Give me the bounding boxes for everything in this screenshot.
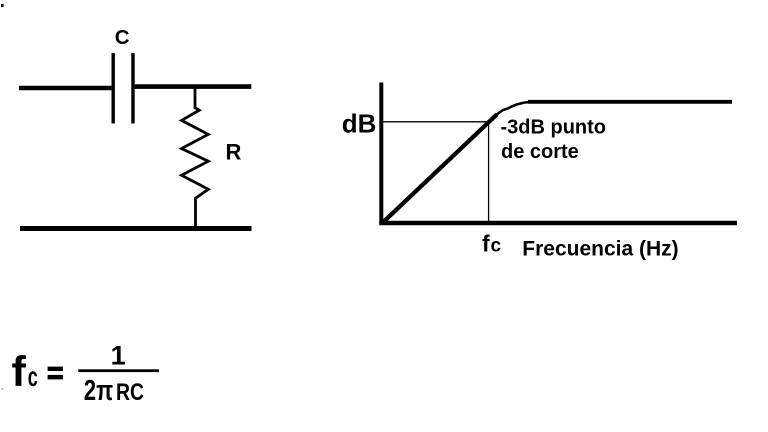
svg-text:Frecuencia (Hz): Frecuencia (Hz) — [522, 237, 678, 260]
svg-text:f: f — [12, 348, 27, 396]
svg-text:RC: RC — [116, 379, 144, 406]
svg-text:2π: 2π — [84, 375, 113, 407]
svg-text:de corte: de corte — [501, 141, 579, 163]
svg-text:c: c — [28, 361, 38, 392]
svg-text:R: R — [226, 140, 242, 165]
svg-text:dB: dB — [342, 108, 377, 138]
svg-text:C: C — [115, 26, 130, 49]
svg-text:1: 1 — [111, 341, 126, 371]
svg-text:-3dB punto: -3dB punto — [501, 117, 607, 139]
svg-text:f: f — [482, 231, 490, 257]
svg-text:c: c — [491, 236, 502, 257]
